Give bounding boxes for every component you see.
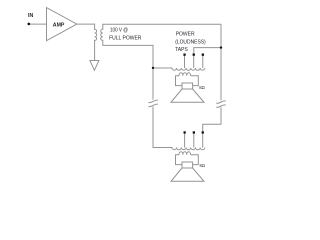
svg-text:IN: IN <box>28 13 33 19</box>
svg-text:FULL POWER: FULL POWER <box>109 36 141 42</box>
svg-text:8Ω: 8Ω <box>200 163 205 168</box>
svg-text:TAPS: TAPS <box>175 47 188 53</box>
svg-text:POWER: POWER <box>176 32 195 38</box>
svg-text:AMP: AMP <box>53 22 65 28</box>
svg-text:(LOUDNESS): (LOUDNESS) <box>175 39 206 45</box>
svg-text:100 V @: 100 V @ <box>110 28 128 34</box>
svg-text:8Ω: 8Ω <box>199 85 204 90</box>
